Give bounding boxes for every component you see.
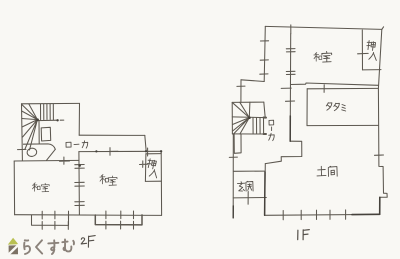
1F tatami box top [307,87,378,89]
2F corridor door tick [102,148,118,156]
2F floor label 2F [81,236,95,248]
2F toilet door diagonal [47,149,56,160]
2F right bay ticks bottom [106,221,134,229]
2F closet door tick [147,148,149,156]
2F room top wall [14,159,79,162]
dark accent doma left wall [264,172,266,215]
2F label washitsu-right kanji WA [100,175,109,184]
1F corridor label KA [269,133,275,140]
1F understair closet box [234,134,241,153]
1F top wall [265,26,382,29]
1F left wall mid [240,80,242,103]
1F inner wall [289,34,292,141]
1F closet label OSHI [366,40,376,50]
2F closet top [146,153,161,155]
1F right wall [378,29,387,214]
1F stair mid line [232,116,266,119]
1F stair treads [253,118,264,135]
1F bottom wall ticks [283,210,345,220]
1F stair bottom end blob [264,133,267,135]
2F corridor right wall [145,135,146,151]
1F stair fan upper [233,102,250,117]
2F label washitsu-right kanji SHITSU [108,176,117,185]
1F tatami box bottom [307,124,378,126]
1F corridor label dash [271,127,273,131]
2F corridor corner blobs [145,150,147,152]
2F center wall blob [78,164,81,167]
2F corridor label dash [74,143,79,145]
1F genkan label GEN [238,182,245,191]
2F left bay ticks bottom [42,221,68,229]
1F closet label IRE [369,52,378,61]
1F left wall upper [264,26,265,81]
1F stair left wall [231,102,233,134]
1F bottom wall [265,213,380,216]
logo text SU [48,240,58,254]
2F left wall upper [21,104,24,161]
dark accent bottom wall right [352,213,380,215]
1F genkan door line [233,197,266,199]
1F washitsu kanji WA [314,53,322,62]
logo text KU [36,240,42,253]
1F top-right corner hook [382,27,384,30]
dark accent right wall bottom [379,197,381,214]
2F closet label OSHI [146,158,156,169]
2F toilet-wall door tick [60,157,70,164]
2F closet wall tick [140,161,148,168]
2F stair landing end blob [56,119,58,121]
2F closet left wall [144,154,147,182]
1F tatami top tick [323,85,325,93]
2F top wall [22,102,80,104]
2F right wall [160,151,162,215]
2F corridor label RO [66,142,71,147]
2F label washitsu-left kanji WA [32,183,40,191]
2F center wall door ticks [75,165,85,206]
1F genkan door tick [247,192,249,205]
1F washitsu kanji SHITSU [322,52,332,63]
1F stair bottom line [232,133,266,135]
logo house body [9,245,18,254]
1F left wall mid tick [237,85,245,87]
1F doma label DO [317,166,326,176]
2F right bay ticks top [106,211,134,219]
2F stair treads [41,104,54,120]
2F stair landing line [37,119,58,121]
1F tatami box left [306,89,308,126]
2F stair hub blob [36,118,39,121]
1F doma label MA [328,166,337,176]
2F left bay ticks top [42,211,68,219]
1F tatami label TA1 [326,103,332,111]
1F closet door tick [358,52,369,54]
1F stair fan lower [233,118,250,134]
2F left wall lower [13,161,15,215]
1F left wall lower tick [229,156,237,158]
1F tatami label TA2 [334,103,340,111]
1F tatami label MI [342,105,346,112]
1F floor label 1F [298,230,310,240]
1F stair mid line end blob [264,117,267,119]
2F basin rect [41,127,51,141]
1F corridor label RO [269,120,274,125]
2F center wall [78,152,81,215]
logo house stripe [8,245,19,255]
1F right wall tick [375,154,384,156]
dark accent inner wall lower [289,116,291,141]
1F doma step walls [265,141,302,163]
2F closet label IRE [149,169,158,178]
1F genkan label KAN [246,181,253,191]
2F corridor wall blob [95,150,97,152]
1F left jog wall [241,80,264,82]
2F stair landing dash [60,119,64,121]
1F left wall lower [232,134,234,218]
logo house roof [8,238,18,245]
1F genkan top wall [233,170,264,172]
1F closet left wall [361,30,363,70]
2F corridor label KA [82,141,88,148]
1F stair hub blob [248,116,251,119]
1F doma left wall [264,164,267,216]
1F washitsu bottom wall [291,83,379,85]
2F toilet bowl [27,148,38,157]
logo text RA [24,240,30,254]
1F inner wall top tick [290,25,292,34]
1F stair right wall [264,102,265,118]
logo text MU [62,239,74,251]
1F closet bottom [363,69,382,71]
2F right bay window box [95,215,142,225]
2F stair fan [22,104,38,150]
2F toilet window tick [18,148,27,150]
1F left wall upper ticks [260,41,269,74]
1F stair top [232,101,264,103]
2F corridor top wall [79,134,145,136]
1F inner wall ticks [281,49,295,102]
2F toilet room top [23,144,55,149]
2F label washitsu-left kanji SHITSU [41,183,49,191]
2F closet bottom [145,180,161,182]
2F left bay window lines [32,215,69,225]
dark accent genkan walls [232,206,234,218]
2F bottom wall [15,214,162,217]
2F landing stem [38,120,40,143]
2F corridor bottom wall [79,150,161,152]
2F wall step right of stairs [78,103,80,135]
